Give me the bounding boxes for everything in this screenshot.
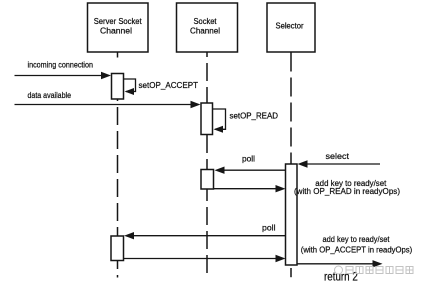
actor box Server Socket Channel: [88, 3, 149, 52]
actor box Selector: [267, 3, 315, 52]
message poll (to ServerSocketChannel): [124, 223, 286, 240]
activation A2b on SocketChannel: [201, 170, 214, 190]
activation A2 on SocketChannel: [201, 103, 213, 135]
svg-text:poll: poll: [242, 154, 255, 164]
self message setOP_READ: [213, 109, 279, 133]
message return 2: [297, 260, 383, 283]
self message setOP_ACCEPT: [124, 79, 199, 95]
return message add key to ready/set (OP_ACCEPT): [124, 234, 413, 262]
lifeline ServerSocketChannel: [117, 52, 119, 58]
svg-text:select: select: [326, 151, 350, 161]
message incoming connection: [15, 60, 112, 80]
svg-text:add key to ready/set: add key to ready/set: [323, 234, 391, 244]
svg-text:Socket: Socket: [194, 17, 218, 26]
activation A1b on ServerSocketChannel: [111, 236, 124, 261]
message poll (to SocketChannel): [215, 154, 286, 174]
svg-text:data available: data available: [28, 90, 72, 100]
svg-text:Selector: Selector: [276, 22, 304, 31]
svg-text:Channel: Channel: [100, 27, 132, 36]
svg-text:(with OP_READ in readyOps): (with OP_READ in readyOps): [294, 186, 400, 196]
activation A3 on Selector: [286, 164, 298, 265]
svg-text:setOP_READ: setOP_READ: [230, 111, 279, 121]
svg-text:setOP_ACCEPT: setOP_ACCEPT: [139, 80, 199, 90]
svg-text:poll: poll: [262, 223, 276, 233]
svg-text:Channel: Channel: [190, 27, 220, 36]
actor box Socket Channel: [177, 3, 238, 52]
lifeline SocketChannel: [206, 52, 208, 274]
activation A1 on ServerSocketChannel: [112, 74, 124, 100]
watermark @ CJK community: [335, 266, 414, 274]
message select: [298, 151, 381, 168]
lifeline Selector: [290, 53, 292, 165]
svg-text:(with OP_ACCEPT in readyOps): (with OP_ACCEPT in readyOps): [301, 245, 413, 255]
return message add key to ready/set (OP_READ): [214, 178, 401, 196]
message data available: [15, 90, 201, 108]
svg-text:incoming connection: incoming connection: [28, 60, 94, 70]
svg-text:Server Socket: Server Socket: [94, 17, 143, 26]
